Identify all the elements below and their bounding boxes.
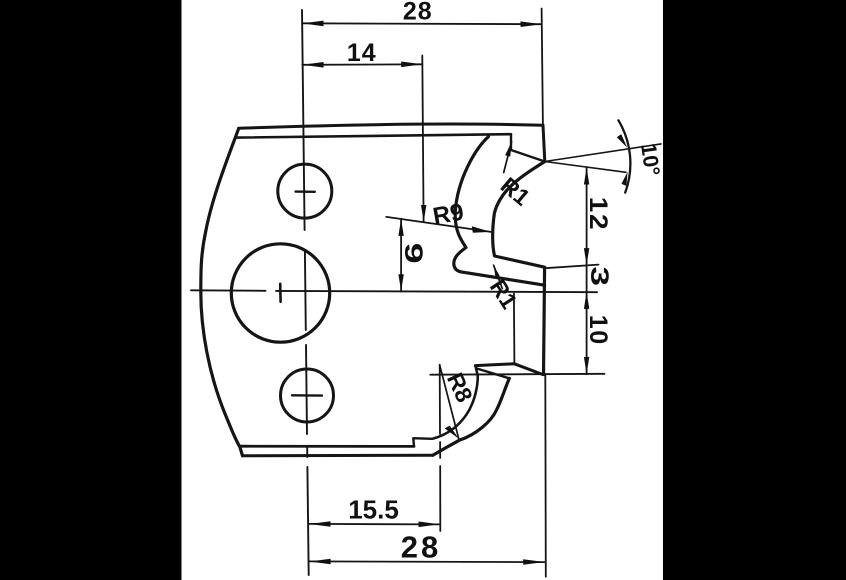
R9 leader xyxy=(386,217,491,232)
R1 lower leader xyxy=(494,265,503,288)
bottom step wedge xyxy=(413,438,432,446)
arrow 3 top down xyxy=(584,248,589,265)
svg-text:10: 10 xyxy=(584,315,612,346)
svg-text:12: 12 xyxy=(584,197,612,231)
R8 outer arc xyxy=(433,378,510,455)
R8 leader xyxy=(440,366,459,439)
arrow 9 down xyxy=(398,274,403,291)
hole H1 top circle xyxy=(278,164,332,218)
svg-text:28: 28 xyxy=(401,530,441,565)
dim 10 lower reference line xyxy=(430,373,604,376)
knife top edge lower line xyxy=(236,134,511,137)
hole H1 center tick xyxy=(296,190,315,193)
svg-text:10°: 10° xyxy=(636,142,664,178)
dim 9 line xyxy=(400,219,402,292)
arrow 15.5 left xyxy=(310,521,331,527)
knife bottom edge upper line xyxy=(241,445,414,448)
knife right edge mid xyxy=(544,267,545,374)
arrow angle arc top xyxy=(617,134,627,148)
arrow 14 extension down xyxy=(421,205,426,222)
dim 28 bottom line xyxy=(309,560,544,563)
bore circle center xyxy=(231,244,329,342)
bore center tick xyxy=(279,284,282,302)
dim 3 gap line xyxy=(586,265,588,292)
arrow R9 tip xyxy=(472,226,491,232)
arrow 9 up xyxy=(398,219,403,236)
dim 28 top line xyxy=(302,22,541,25)
knife right edge upper (corner to bevel vertex) xyxy=(543,125,545,161)
arrow R1 upper tip xyxy=(505,142,512,157)
dim 28 bottom right extension xyxy=(544,374,547,577)
hole H2 bottom circle xyxy=(281,369,334,422)
arrow R1 lower tip xyxy=(494,266,500,278)
arrow 14 left xyxy=(303,62,324,68)
dim 15.5 line xyxy=(309,523,439,526)
arrow 15.5 right xyxy=(419,522,440,528)
svg-text:9: 9 xyxy=(399,243,427,264)
vertical centerline xyxy=(302,10,309,575)
cove edge line (right curve) xyxy=(493,162,545,268)
knife bottom edge lower line xyxy=(243,454,433,458)
dim 12 line xyxy=(586,167,588,265)
dim 14 line xyxy=(302,63,422,66)
svg-text:14: 14 xyxy=(347,39,377,67)
R1 upper leader xyxy=(504,142,512,173)
arrow bottom28 left xyxy=(310,559,331,565)
hole H2 center tick xyxy=(292,394,322,397)
top-right corner facet xyxy=(511,134,545,161)
arrow angle arc bottom xyxy=(621,172,627,186)
angle lower ray xyxy=(545,162,626,173)
angle arc xyxy=(618,120,630,192)
dim 14 right extension xyxy=(422,56,423,222)
arrow 12 up xyxy=(584,168,589,185)
svg-text:3: 3 xyxy=(585,267,613,286)
white scan field xyxy=(182,0,664,580)
knife top edge upper line xyxy=(239,124,544,128)
svg-text:R9: R9 xyxy=(431,198,466,230)
svg-text:28: 28 xyxy=(403,0,433,26)
dim 15.5 right extension xyxy=(439,365,442,531)
angle upper ray xyxy=(545,144,661,162)
dim 28 top right extension xyxy=(542,9,543,125)
arrow 3 bottom up xyxy=(584,292,589,309)
arrow 10 down xyxy=(584,357,589,374)
arrow bottom28 right xyxy=(523,559,544,565)
profile step bottom line xyxy=(477,369,509,379)
arrow top28 left xyxy=(303,21,324,27)
arrow top28 right xyxy=(521,21,542,27)
cove grind line (left R9 arc) xyxy=(454,137,545,286)
profile step top line xyxy=(475,364,542,375)
horizontal centerline xyxy=(191,290,597,292)
svg-text:15.5: 15.5 xyxy=(348,495,399,525)
dim 3 upper reference line xyxy=(545,265,599,269)
R8 inner arc xyxy=(433,366,478,439)
dim 10 line xyxy=(586,292,588,374)
profile depth reference line xyxy=(513,294,516,364)
arrow R8 tip xyxy=(445,426,459,439)
knife plate left arc edge xyxy=(201,129,243,456)
arrow 14 right xyxy=(401,62,422,68)
